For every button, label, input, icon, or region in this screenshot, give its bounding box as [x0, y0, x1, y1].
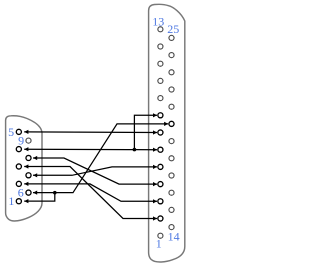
wire branch DB9-1 to junction [24, 193, 55, 201]
DB25 pin 7 [158, 130, 163, 135]
DB25 pin 9 (nc) [158, 96, 163, 101]
DB9 pin 9 (not connected) [26, 138, 31, 143]
DB9 pin 2 [16, 181, 21, 186]
connector shell J1 DE-9 [6, 116, 42, 221]
svg-text:13: 13 [152, 15, 164, 29]
svg-text:1: 1 [8, 194, 14, 208]
DB9 pin 8 [26, 155, 31, 160]
svg-text:14: 14 [168, 230, 180, 244]
arrow at DB9 pin 4 [24, 147, 28, 151]
arrow at DB25 pin 2 [153, 216, 157, 220]
svg-text:5: 5 [8, 125, 14, 139]
arrow at DB25 pin 20 [164, 122, 168, 126]
DB25 pin 17 (nc) [169, 173, 174, 178]
junction dot at DB25 6/8 tie [133, 148, 137, 152]
wire DB9-3 to DB25-2 [24, 167, 157, 219]
arrow at DB25 pin 6 [153, 148, 157, 152]
DB9 pin 5 [16, 129, 21, 134]
arrow at DB9 pin 5 [24, 130, 28, 134]
DB25 pin 1 (nc) [158, 233, 163, 238]
DB25 pin 19 (nc) [169, 139, 174, 144]
DB25 pin 25 (nc) [169, 35, 174, 40]
wire DB9-8 to DB25-4 [33, 158, 157, 184]
svg-text:6: 6 [18, 185, 24, 199]
DB9 pin 6 [26, 190, 31, 195]
arrow at DB25 pin 7 [153, 130, 157, 134]
DB9 pin 3 [16, 164, 21, 169]
DB25 pin 5 [158, 164, 163, 169]
arrow at DB25 pin 5 [153, 165, 157, 169]
arrow at DB25 pin 4 [153, 182, 157, 186]
arrow at DB9 pin 3 [24, 164, 28, 168]
svg-text:1: 1 [156, 237, 162, 251]
arrow at DB25 pin 3 [153, 199, 157, 203]
DB25 pin 4 [158, 182, 163, 187]
arrow at DB9 pin 1 [24, 199, 28, 203]
wire DB9-2 to DB25-3 [24, 184, 157, 201]
DB25 pin 22 (nc) [169, 87, 174, 92]
DB25 pin 12 (nc) [158, 44, 163, 49]
DB25 pin 23 (nc) [169, 70, 174, 75]
arrow at DB9 pin 6 [33, 191, 37, 195]
arrow at DB9 pin 2 [24, 182, 28, 186]
svg-text:25: 25 [167, 22, 179, 36]
DB25 pin 16 (nc) [169, 190, 174, 195]
junction dot at DB9 6/1 tie [53, 191, 57, 195]
DB25 pin 21 (nc) [169, 104, 174, 109]
DB25 pin 3 [158, 199, 163, 204]
wire DB9-5 to DB25-7 (ground) [24, 131, 157, 134]
DB25 pin 15 (nc) [169, 207, 174, 212]
svg-text:9: 9 [18, 134, 24, 148]
DB25 pin 2 [158, 216, 163, 221]
wire branch junction to DB25-8 [134, 115, 157, 149]
DB25 pin 14 (nc) [169, 225, 174, 230]
arrow at DB9 pin 8 [33, 156, 37, 160]
wire DB9-6 to junction to DB25-20 [33, 124, 168, 193]
wire DB9-7 to DB25-5 [33, 167, 157, 175]
DB9 pin 1 [16, 199, 21, 204]
connector shell J2 DB-25 [149, 4, 185, 262]
DB25 pin 11 (nc) [158, 61, 163, 66]
DB25 pin 20 [169, 121, 174, 126]
DB25 pin 10 (nc) [158, 78, 163, 83]
wire DB9-4 to junction to DB25-6 [24, 148, 157, 151]
DB25 pin 6 [158, 147, 163, 152]
arrow at DB9 pin 7 [33, 173, 37, 177]
DB25 pin 8 [158, 113, 163, 118]
arrow at DB25 pin 8 [153, 113, 157, 117]
DB25 pin 13 (nc) [158, 27, 163, 32]
DB25 pin 18 (nc) [169, 156, 174, 161]
DB9 pin 7 [26, 173, 31, 178]
DB25 pin 24 (nc) [169, 53, 174, 58]
DB9 pin 4 [16, 147, 21, 152]
